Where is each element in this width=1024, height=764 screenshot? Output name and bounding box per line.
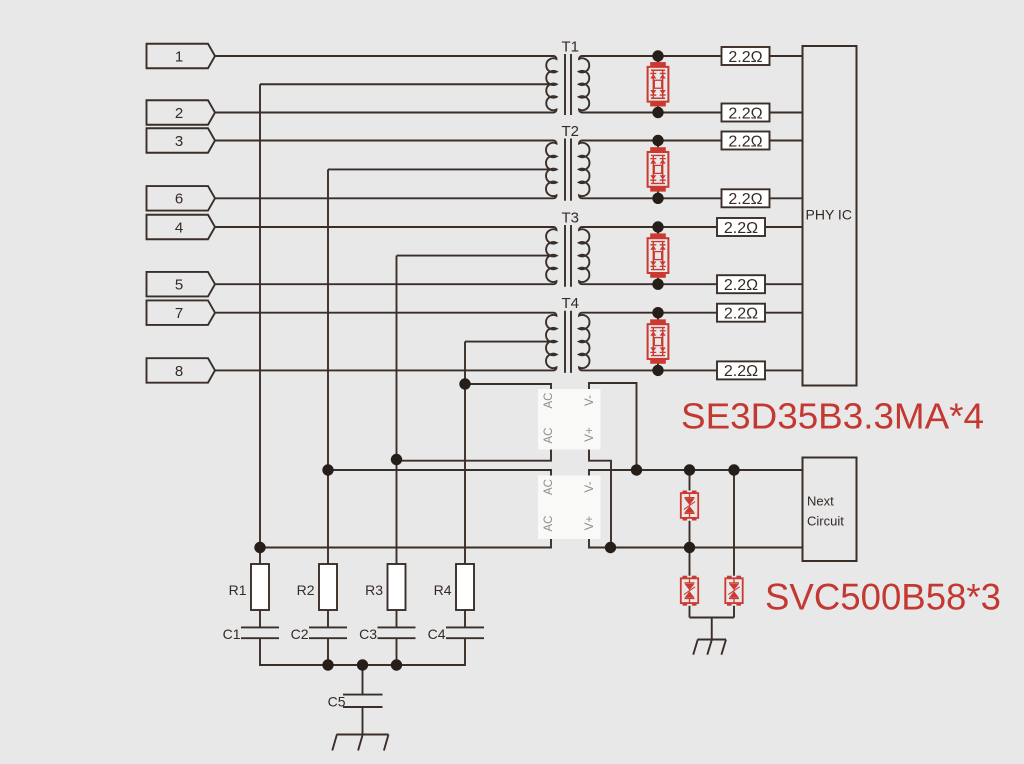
- transformer T4: [215, 295, 589, 373]
- TVS diode array D1 SE3D35B3.3MA (across T1 secondary): [648, 56, 669, 112]
- svg-text:1: 1: [175, 48, 183, 65]
- wire: T3 centre-tap to vertical bus x=396.5: [397, 255, 557, 257]
- node T4 secondary bottom: [652, 365, 663, 376]
- wire: secondary line row 7 to PHY IC: [582, 312, 803, 314]
- wire: T1 centre-tap to vertical bus x=260: [260, 83, 557, 85]
- PHY IC block: [803, 46, 857, 386]
- connector pin 7: [147, 300, 216, 325]
- wire: U1 pin V+ down to V+ rail: [589, 450, 611, 548]
- wire: U1 pin V- up-and-over to V- rail: [589, 383, 637, 470]
- svg-text:T2: T2: [562, 123, 580, 140]
- wire: T2 tap node to U2 pin AC(top): [328, 470, 551, 476]
- svg-text:Circuit: Circuit: [807, 514, 844, 529]
- TVS diode D7 SVC500B58 (V- to ground): [725, 576, 742, 606]
- transformer T2: [215, 123, 590, 201]
- chassis ground (right): [693, 640, 726, 655]
- capacitor C1: [223, 626, 279, 642]
- capacitor C5: [328, 694, 383, 710]
- svg-text:PHY IC: PHY IC: [806, 207, 852, 223]
- wire: secondary line row 6 to PHY IC: [582, 197, 803, 199]
- svg-text:2.2Ω: 2.2Ω: [724, 220, 758, 237]
- svg-text:2.2Ω: 2.2Ω: [728, 133, 762, 150]
- svg-text:R3: R3: [365, 582, 383, 598]
- wire: bus to C5: [362, 665, 364, 694]
- TVS diode array D3 SE3D35B3.3MA (across T3 secondary): [648, 227, 669, 283]
- svg-text:8: 8: [175, 363, 183, 380]
- TVS diode array D4 SE3D35B3.3MA (across T4 secondary): [648, 313, 669, 369]
- svg-text:C3: C3: [359, 626, 377, 642]
- Next Circuit block: [803, 458, 857, 562]
- resistor R1: [229, 564, 269, 610]
- connector pin 8: [147, 358, 216, 383]
- resistor 2.2ohm (row 4): [717, 218, 765, 237]
- svg-text:C2: C2: [291, 626, 309, 642]
- connector pin 4: [147, 215, 216, 240]
- wire: vertical bus from T4 centre-tap down to R4: [464, 342, 466, 564]
- node T3 tap junction: [391, 454, 402, 465]
- wire: secondary line row 5 to PHY IC: [582, 283, 803, 285]
- wire: T1 tap node to U2 pin AC(bottom): [260, 539, 551, 548]
- node V- rail / U1 V-: [631, 464, 642, 475]
- wire: secondary line row 3 to PHY IC: [582, 140, 803, 142]
- svg-text:2.2Ω: 2.2Ω: [728, 49, 762, 66]
- svg-text:R1: R1: [229, 582, 247, 598]
- transformer T3: [215, 210, 589, 287]
- svg-text:V-: V-: [584, 481, 596, 492]
- svg-text:C4: C4: [428, 626, 446, 642]
- svg-text:AC: AC: [543, 516, 555, 532]
- resistor 2.2ohm (row 5): [717, 275, 765, 294]
- wire: vertical bus from T3 centre-tap down to R3: [396, 256, 398, 564]
- connector pin 2: [147, 100, 216, 125]
- wire: R1 to C1: [259, 610, 261, 627]
- wire: secondary line row 4 to PHY IC: [582, 226, 803, 228]
- wire: common bus below C1-C4: [260, 638, 465, 665]
- node V- rail / D7: [728, 464, 739, 475]
- wire: V+ rail from U2 pin V+ to Next Circuit: [589, 539, 803, 548]
- node V- rail / D5: [684, 464, 695, 475]
- TVS diode array D2 SE3D35B3.3MA (across T2 secondary): [648, 141, 669, 197]
- wire: secondary line row 1 to PHY IC: [582, 55, 803, 57]
- connector pin 6: [147, 186, 216, 211]
- node T2 secondary top: [652, 135, 663, 146]
- wire: C3 stem to bus: [396, 638, 398, 665]
- resistor 2.2ohm (row 7): [717, 304, 765, 323]
- svg-text:2.2Ω: 2.2Ω: [724, 363, 758, 380]
- svg-text:6: 6: [175, 191, 183, 208]
- wire: R3 to C3: [396, 610, 398, 627]
- wire: V- rail from U2 pin V- to Next Circuit: [589, 470, 803, 476]
- transformer T1: [215, 39, 589, 116]
- svg-text:AC: AC: [543, 393, 555, 409]
- chassis ground (below C5): [332, 735, 388, 751]
- node T1 secondary bottom: [652, 107, 663, 118]
- node T4 secondary top: [652, 307, 663, 318]
- resistor 2.2ohm (row 8): [717, 361, 765, 380]
- svg-text:Next: Next: [807, 494, 834, 509]
- node V+ rail / U1 V+: [605, 542, 616, 553]
- resistor 2.2ohm (row 2): [722, 104, 770, 123]
- wire: T2 centre-tap to vertical bus x=328: [328, 168, 557, 170]
- power module U2 (AC/V- V+ converter, lower): [538, 476, 601, 540]
- node T2 tap junction: [322, 464, 333, 475]
- connector pin 1: [147, 44, 216, 69]
- svg-text:C1: C1: [223, 626, 241, 642]
- svg-text:2.2Ω: 2.2Ω: [724, 277, 758, 294]
- wire: C2 stem to bus: [327, 638, 329, 665]
- capacitor C4: [428, 626, 484, 642]
- resistor R2: [297, 564, 337, 610]
- wire: vertical bus from T1 centre-tap down to R1: [259, 84, 261, 564]
- node T3 secondary bottom: [652, 279, 663, 290]
- wire: secondary line row 8 to PHY IC: [582, 369, 803, 371]
- svg-text:T4: T4: [562, 295, 580, 312]
- wire: T4 tap node to U1 pin AC(top): [465, 384, 551, 389]
- node T2 secondary bottom: [652, 193, 663, 204]
- node V+ rail / D6: [684, 542, 695, 553]
- resistor R3: [365, 564, 405, 610]
- wire: T3 tap node to U1 pin AC(bottom): [397, 450, 552, 461]
- node bus C3: [391, 659, 402, 670]
- svg-text:2.2Ω: 2.2Ω: [724, 306, 758, 323]
- svg-text:2.2Ω: 2.2Ω: [728, 105, 762, 122]
- wire: T4 centre-tap to vertical bus x=465: [465, 341, 557, 343]
- wire: C5 to ground: [362, 707, 364, 735]
- svg-text:2.2Ω: 2.2Ω: [728, 191, 762, 208]
- svg-text:C5: C5: [328, 694, 346, 710]
- wire: vertical bus from T2 centre-tap down to R2: [327, 169, 329, 564]
- node T4 tap junction: [459, 378, 470, 389]
- svg-text:5: 5: [175, 277, 183, 294]
- capacitor C3: [359, 626, 415, 642]
- wire: ground link bar below D6/D7: [690, 618, 735, 640]
- wire: TVS D5 stems (V- to V+): [689, 470, 691, 548]
- svg-text:7: 7: [175, 305, 183, 322]
- svg-text:V-: V-: [584, 395, 596, 406]
- svg-text:T1: T1: [562, 39, 580, 56]
- wire: TVS D6 stems (V+ to ground): [689, 548, 691, 618]
- svg-text:3: 3: [175, 133, 183, 150]
- node bus C2: [322, 659, 333, 670]
- wire: R2 to C2: [327, 610, 329, 627]
- node bus C5: [357, 659, 368, 670]
- node T1 secondary top: [652, 50, 663, 61]
- resistor 2.2ohm (row 6): [722, 189, 770, 208]
- resistor 2.2ohm (row 1): [722, 47, 770, 66]
- power module U1 (AC/V- V+ converter, upper): [538, 389, 601, 450]
- svg-text:SVC500B58*3: SVC500B58*3: [765, 577, 1001, 618]
- wire: R4 to C4: [464, 610, 466, 627]
- svg-text:4: 4: [175, 219, 183, 236]
- connector pin 5: [147, 272, 216, 297]
- svg-text:V+: V+: [584, 516, 596, 531]
- svg-text:AC: AC: [543, 479, 555, 495]
- svg-text:R2: R2: [297, 582, 315, 598]
- svg-text:SE3D35B3.3MA*4: SE3D35B3.3MA*4: [681, 396, 984, 437]
- wire: secondary line row 2 to PHY IC: [582, 112, 803, 114]
- wire: TVS D7 stems (V- to ground): [733, 470, 735, 618]
- node T1 tap junction: [254, 542, 265, 553]
- node T3 secondary top: [652, 221, 663, 232]
- svg-text:2: 2: [175, 105, 183, 122]
- capacitor C2: [291, 626, 347, 642]
- svg-text:R4: R4: [434, 582, 452, 598]
- svg-text:V+: V+: [584, 427, 596, 442]
- TVS diode D6 SVC500B58 (V+ to ground): [681, 576, 698, 606]
- resistor R4: [434, 564, 474, 610]
- connector pin 3: [147, 128, 216, 153]
- svg-text:AC: AC: [543, 428, 555, 444]
- TVS diode D5 SVC500B58 (V- to V+): [681, 491, 698, 521]
- resistor 2.2ohm (row 3): [722, 132, 770, 151]
- svg-text:T3: T3: [562, 210, 580, 227]
